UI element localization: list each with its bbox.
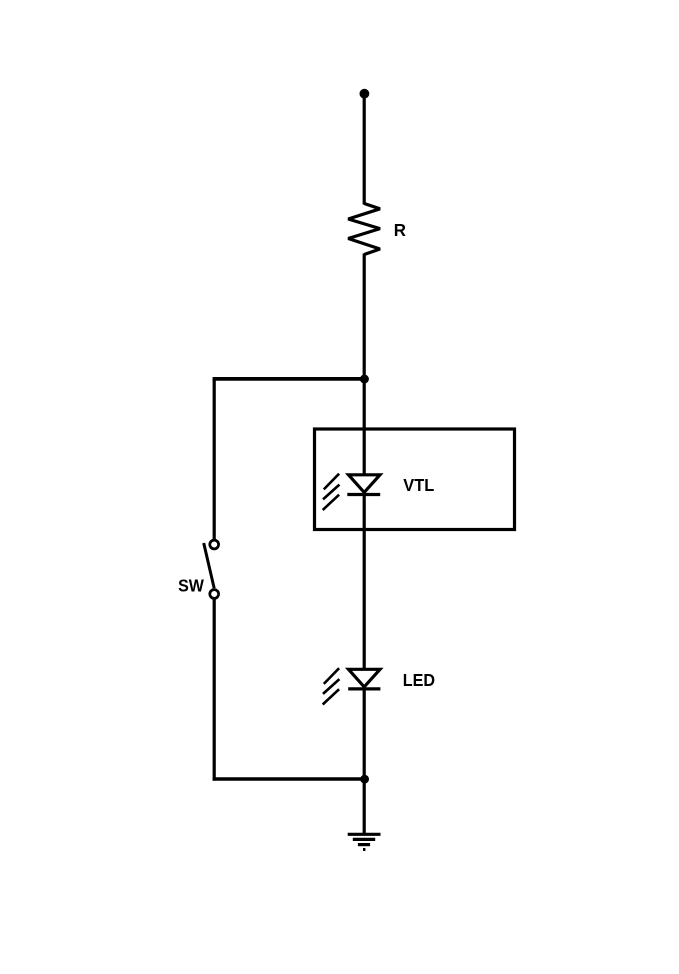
switch SW top contact: [210, 540, 219, 549]
LED triangle: [349, 669, 381, 687]
svg-text:VTL: VTL: [403, 475, 434, 495]
svg-text:R: R: [394, 220, 407, 240]
wire junction to VTL anode: [363, 379, 366, 475]
junction node B: [360, 775, 369, 784]
wire VTL cathode to LED anode: [363, 495, 366, 670]
wire bottom horizontal to junction: [213, 777, 365, 780]
wire resistor to junction: [363, 254, 366, 380]
box VTL optocoupler outline: [315, 429, 515, 530]
switch SW bottom contact: [210, 590, 219, 599]
photodiode VTL cathode bar: [347, 493, 380, 496]
wire horizontal junction to left branch: [213, 377, 365, 381]
wire left branch down to switch: [213, 379, 216, 540]
switch SW blade: [204, 543, 215, 588]
ground: [348, 833, 381, 836]
wire junction to ground: [363, 779, 366, 834]
LED light rays: [324, 668, 339, 684]
node top terminal: [360, 89, 370, 99]
wire top terminal to resistor: [363, 95, 366, 205]
resistor R: [348, 204, 380, 255]
LED cathode bar: [348, 687, 380, 690]
wire LED cathode to bottom junction: [363, 689, 366, 779]
junction node A: [360, 375, 369, 384]
photodiode VTL light rays: [324, 474, 339, 490]
wire switch to bottom corner: [213, 599, 216, 781]
svg-text:SW: SW: [178, 576, 204, 596]
photodiode VTL triangle: [349, 475, 381, 493]
svg-text:LED: LED: [403, 670, 435, 690]
